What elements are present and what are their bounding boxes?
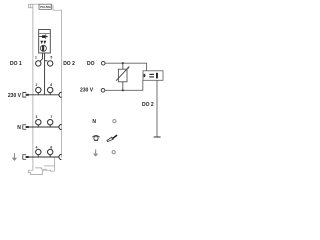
terminal 7 (48, 115, 53, 127)
svg-text:1: 1 (35, 55, 37, 59)
varistor RV1 (116, 66, 130, 82)
terminal 5 (48, 55, 53, 66)
node 230V terminal (101, 89, 105, 93)
svg-text:DO: DO (87, 61, 95, 67)
relay K1 symbol (40, 45, 46, 51)
terminal 6 (48, 83, 53, 95)
wire N bus (27, 126, 59, 128)
connector plug L (23, 93, 29, 98)
wire 230V to load (105, 80, 143, 90)
wire DO2 end bar (154, 136, 161, 138)
svg-text:3: 3 (36, 115, 38, 119)
wire L bus (27, 94, 59, 96)
svg-text:N: N (17, 125, 21, 131)
svg-text:2: 2 (36, 83, 38, 87)
svg-text:6: 6 (50, 83, 52, 87)
continuation hook PE (59, 154, 62, 159)
continuation hook L (59, 92, 62, 97)
wire PE bus (27, 156, 59, 158)
wire U1 to L bus (44, 53, 46, 95)
svg-text:DO 2: DO 2 (142, 102, 154, 108)
node DO terminal (101, 61, 105, 65)
load K1 box (143, 71, 163, 81)
U1 data contact symbol (39, 35, 48, 39)
connector plug PE (23, 155, 29, 160)
clamp icon (92, 136, 99, 141)
load K1 plug symbol (144, 74, 146, 78)
junction bottom varistor (122, 89, 124, 91)
wire varistor taps (122, 63, 124, 90)
module foot profile (28, 157, 54, 174)
continuation hook N (59, 124, 62, 129)
terminal 3 (36, 115, 42, 127)
legend circle PE (112, 151, 115, 154)
load K1 contact bars (149, 74, 154, 78)
wire DO2 return (156, 80, 158, 136)
part number box 753-509 (39, 4, 52, 9)
electronics block U1 (39, 30, 51, 54)
svg-text:7: 7 (50, 115, 52, 119)
screwdriver icon (107, 135, 118, 142)
LED D1 (40, 41, 43, 44)
terminal 1 (35, 55, 41, 66)
svg-text:753-509: 753-509 (40, 5, 51, 9)
module top latch (28, 4, 39, 8)
module body outline (33, 4, 62, 157)
U1 internal bus line (39, 33, 50, 35)
functional earth arrow (legend) (93, 150, 98, 157)
svg-text:8: 8 (50, 146, 52, 150)
wire U1 to terminal 1 (40, 53, 42, 61)
svg-text:DO 1: DO 1 (10, 61, 22, 67)
terminal 2 (36, 83, 42, 95)
terminal 4 (36, 146, 42, 157)
junction top varistor (122, 62, 124, 64)
svg-text:5: 5 (50, 55, 52, 59)
svg-text:230 V: 230 V (80, 87, 94, 93)
LED D2 (44, 41, 47, 44)
terminal 8 (48, 146, 53, 157)
svg-text:DO 2: DO 2 (63, 61, 75, 67)
wire DO to load (105, 63, 147, 71)
wire stub to terminal 5 (45, 60, 48, 62)
load K1 end bar (156, 73, 158, 79)
connector plug N (23, 125, 29, 130)
svg-text:230 V: 230 V (8, 93, 22, 99)
legend circle N (113, 120, 116, 123)
svg-text:4: 4 (36, 146, 38, 150)
svg-text:N: N (92, 119, 96, 125)
functional earth arrow (left) (12, 153, 17, 161)
